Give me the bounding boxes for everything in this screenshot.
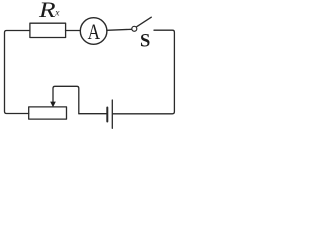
battery BT1 long plate xyxy=(111,100,113,128)
switch S pivot circle xyxy=(132,26,137,31)
svg-text:R: R xyxy=(38,0,56,22)
battery BT1 short plate xyxy=(106,108,108,122)
wire top-left: resistor to left corner, down left side, to rheostat left terminal xyxy=(5,31,30,114)
wire resistor to ammeter xyxy=(66,30,81,32)
ammeter U1 circle xyxy=(80,18,107,45)
svg-text:S: S xyxy=(140,32,150,52)
rheostat R2 box xyxy=(29,107,67,119)
wire battery to rheostat slider leg xyxy=(79,113,107,115)
wire switch to top-right corner and down right side xyxy=(113,30,175,114)
resistor R1 box xyxy=(30,23,66,37)
svg-text:x: x xyxy=(54,9,60,19)
svg-text:A: A xyxy=(88,19,101,44)
rheostat slider arrowhead xyxy=(50,102,56,108)
rheostat slider arm wire xyxy=(53,86,79,113)
switch S blade xyxy=(137,17,152,27)
wire ammeter to switch pivot xyxy=(107,29,132,30)
